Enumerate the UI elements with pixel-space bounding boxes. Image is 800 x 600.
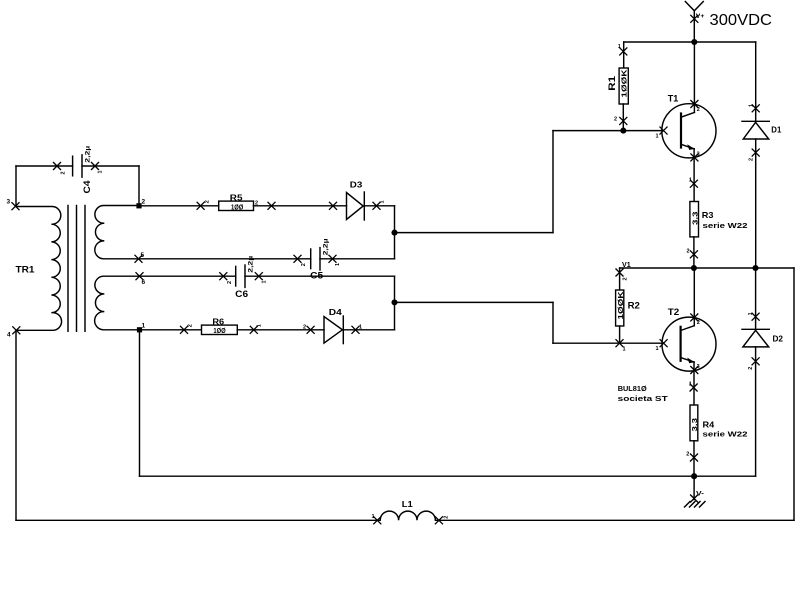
transistor T1 emitter stroke <box>681 144 694 149</box>
pin 1 X of D4 <box>352 326 360 334</box>
diode D3 triangle <box>347 193 364 220</box>
svg-text:2,2µ: 2,2µ <box>323 238 330 255</box>
capacitor C4 right plate <box>81 155 83 177</box>
pin 1 X of R5 <box>268 202 276 210</box>
pin 2 X of R6 <box>180 326 188 334</box>
svg-text:1ØØ: 1ØØ <box>231 202 244 211</box>
wire row1 R5 to D3 <box>254 205 347 207</box>
wire right outer riser x794 <box>793 268 795 520</box>
transformer TR1 pin 5 X <box>135 255 143 263</box>
svg-text:2: 2 <box>303 324 306 330</box>
svg-text:serie W22: serie W22 <box>703 430 748 439</box>
transistor T1 emitter arrow <box>687 144 694 150</box>
svg-text:3.3: 3.3 <box>692 418 699 432</box>
pin 2 X of T2 collector <box>690 313 698 321</box>
pin 1 X of R2 <box>616 339 624 347</box>
svg-text:1: 1 <box>689 178 692 184</box>
svg-text:2: 2 <box>623 277 629 280</box>
pin 1 X of R6 <box>250 326 258 334</box>
diode D3 cathode bar <box>363 192 365 220</box>
wire C4 loop right drop <box>138 166 140 206</box>
svg-text:1: 1 <box>656 134 659 140</box>
net V1 horizontal wire <box>620 267 794 269</box>
svg-text:BUL81Ø: BUL81Ø <box>618 384 647 393</box>
wire TR1 pin1 drop to V- line <box>139 330 141 476</box>
capacitor C6 right plate <box>244 265 246 287</box>
wire T1 collector from rail <box>693 42 695 112</box>
svg-text:1: 1 <box>372 514 375 520</box>
svg-text:2: 2 <box>687 249 690 255</box>
transformer TR1 pin 3 X <box>12 202 20 210</box>
wire D2 anode lead down to V- line <box>755 347 757 476</box>
pin 1 X of C6 <box>255 272 263 280</box>
wire T1 emitter down to R3 <box>693 149 695 202</box>
transformer TR1 primary winding <box>16 207 62 331</box>
svg-text:R1: R1 <box>607 76 617 91</box>
wire V- stem down to ground <box>693 476 695 499</box>
wire T2 collector from V1 <box>693 268 695 326</box>
svg-text:2: 2 <box>227 281 233 284</box>
wire D1 anode lead down <box>755 139 757 268</box>
svg-text:2: 2 <box>205 200 211 203</box>
pin 3 X of T1 emitter <box>690 153 698 161</box>
transistor T2 collector stroke <box>681 326 695 331</box>
resistor R1 body <box>619 68 628 104</box>
svg-text:4: 4 <box>7 332 11 339</box>
wire vertical C6/D4 join <box>394 276 396 330</box>
pin 2 X of D2 <box>752 357 760 365</box>
svg-text:1: 1 <box>335 263 341 266</box>
wire row4 D4 to corner <box>343 329 394 331</box>
svg-text:2: 2 <box>444 516 450 519</box>
pin 1 X of D3 <box>373 202 381 210</box>
svg-text:C4: C4 <box>82 181 92 194</box>
svg-text:T1: T1 <box>668 94 679 104</box>
junction V- node <box>691 473 697 479</box>
pin 2 X of D1 <box>752 149 760 157</box>
transformer TR1 pin 6 X <box>136 272 144 280</box>
wire R3 bottom lead <box>693 237 695 268</box>
pin 1 X of T1 base <box>660 127 668 135</box>
wire bottom line left of L1 <box>16 519 380 521</box>
pin 2 X of R2 <box>616 269 624 277</box>
pin 2 X of R4 <box>690 454 698 462</box>
pin X on V- stem <box>690 495 698 503</box>
wire rail corner down to R1 <box>623 42 625 68</box>
junction feedback tap A <box>391 230 397 236</box>
svg-text:2: 2 <box>697 320 700 326</box>
svg-text:1: 1 <box>618 44 621 50</box>
wire feedback tap B to riser <box>395 301 554 303</box>
ground symbol hatches <box>685 502 706 508</box>
pin 1 X of D1 <box>752 104 760 112</box>
wire V1 corner down to R2 <box>619 268 621 290</box>
diode D2 triangle <box>743 330 769 347</box>
wire T2 emitter down to R4 <box>693 362 695 405</box>
svg-text:C6: C6 <box>235 289 248 299</box>
pin 2 X of R1 <box>619 117 627 125</box>
transistor T1 circle <box>662 104 716 158</box>
diode D4 cathode bar <box>342 316 344 344</box>
inductor L1 coil <box>380 511 435 520</box>
svg-text:2,2µ: 2,2µ <box>248 256 255 273</box>
pin 1 X of L1 <box>373 516 381 524</box>
svg-text:2: 2 <box>142 199 146 206</box>
svg-text:300VDC: 300VDC <box>710 12 773 29</box>
pin 2 X of L1 <box>435 516 443 524</box>
wire T1 base line <box>553 130 662 132</box>
svg-text:TR1: TR1 <box>16 265 35 275</box>
svg-text:1ØØ: 1ØØ <box>213 326 226 335</box>
svg-text:2: 2 <box>614 117 617 123</box>
svg-text:1: 1 <box>256 324 262 327</box>
pin 2 X of R3 <box>690 250 698 258</box>
diode D1 triangle <box>743 122 768 139</box>
wire feedback riser to T2 base <box>552 302 554 343</box>
svg-text:1: 1 <box>98 170 104 173</box>
resistor R3 body <box>690 202 699 237</box>
transformer TR1 core line 2 <box>76 206 78 332</box>
pin 1 X of R4 <box>690 384 698 392</box>
svg-text:1: 1 <box>359 324 362 330</box>
svg-text:2: 2 <box>301 263 307 266</box>
wire V+ stem down to rail <box>693 16 695 42</box>
pin 2 X of C6 <box>219 272 227 280</box>
wire D2 top lead from V1 <box>755 268 757 329</box>
pin 2 X of C4 <box>53 162 61 170</box>
svg-text:1: 1 <box>748 312 754 315</box>
wire row3 C6 to corner <box>245 275 395 277</box>
svg-text:3.3: 3.3 <box>692 211 699 225</box>
wire vertical D3/C5 join <box>394 206 396 259</box>
wire T2 base line <box>553 342 662 344</box>
svg-text:3: 3 <box>697 152 700 158</box>
junction V1 at R3/T2 column <box>691 265 697 271</box>
svg-text:1: 1 <box>689 382 692 388</box>
pin 1 X of C5 <box>329 255 337 263</box>
svg-text:2: 2 <box>61 171 67 174</box>
transistor T1 collector stroke <box>681 112 694 117</box>
junction V1 at D1/D2 column <box>752 265 758 271</box>
capacitor C5 right plate <box>319 248 321 270</box>
transistor T2 base bar <box>679 326 681 362</box>
capacitor C6 left plate <box>235 266 237 286</box>
svg-text:D2: D2 <box>773 333 784 343</box>
svg-text:R3: R3 <box>702 210 714 220</box>
transistor T2 circle <box>662 317 716 371</box>
pin 1 X of C4 <box>91 162 99 170</box>
wire C4 loop top right <box>82 165 139 167</box>
wire C4 loop top left <box>16 165 73 167</box>
capacitor C4 left plate <box>72 156 74 176</box>
pin X on V+ stem <box>690 15 698 23</box>
svg-text:1: 1 <box>656 346 659 352</box>
capacitor C5 left plate <box>310 249 312 269</box>
svg-text:D4: D4 <box>329 307 342 317</box>
svg-text:D3: D3 <box>350 180 363 190</box>
svg-text:T2: T2 <box>668 307 680 317</box>
wire row4 R6 to D4 <box>237 329 324 331</box>
pin 1 X of R3 <box>690 180 698 188</box>
svg-text:2,2µ: 2,2µ <box>85 146 92 163</box>
pin 1 X of R1 <box>619 47 627 55</box>
svg-text:2: 2 <box>748 158 754 161</box>
supply V+ antenna symbol <box>685 2 703 16</box>
svg-text:L1: L1 <box>402 499 413 509</box>
pin 2 X of R5 <box>197 202 205 210</box>
svg-text:R5: R5 <box>230 194 243 203</box>
transistor T1 base bar <box>680 112 682 148</box>
svg-text:R6: R6 <box>212 317 224 326</box>
wire row1 from TR1 pin2 to R5 <box>139 205 219 207</box>
resistor R6 body <box>202 325 238 334</box>
resistor R4 body <box>690 405 698 441</box>
svg-text:1: 1 <box>380 200 386 203</box>
svg-text:2: 2 <box>255 201 258 207</box>
transistor T2 emitter stroke <box>681 358 695 363</box>
pin 1 X of D2 <box>752 313 760 321</box>
wire V- horizontal line <box>140 475 756 477</box>
transistor T2 emitter arrow <box>687 358 694 364</box>
svg-text:1ØØK: 1ØØK <box>620 68 629 97</box>
diode D4 triangle <box>324 317 342 344</box>
wire row2 C5 to corner <box>320 258 395 260</box>
wire R2 bottom lead <box>619 326 621 343</box>
wire row3 from TR1 pin6 to C6 <box>140 275 236 277</box>
svg-text:3: 3 <box>697 364 700 370</box>
transformer TR1 secondary winding top (pins 2-5) <box>95 206 139 259</box>
svg-text:V1: V1 <box>622 260 631 269</box>
resistor R5 body <box>219 201 254 210</box>
svg-text:2: 2 <box>697 107 700 113</box>
svg-text:1: 1 <box>748 104 754 107</box>
transformer TR1 core line 1 <box>67 206 69 332</box>
svg-text:societa ST: societa ST <box>618 394 669 403</box>
pin 3 X of T2 emitter <box>690 366 698 374</box>
junction feedback tap B <box>391 299 397 305</box>
wire feedback riser to T1 base <box>552 131 554 233</box>
pin 2 X of D3 <box>329 202 337 210</box>
wire bottom line right of L1 <box>435 519 794 521</box>
wire pin3 riser up to C4 loop <box>15 166 17 206</box>
junction on V+ rail <box>691 39 697 45</box>
wire feedback tap A to riser <box>395 232 554 234</box>
wire pin4 drop to bottom line <box>15 330 17 520</box>
pin 2 X of T1 collector <box>690 100 698 108</box>
svg-text:R2: R2 <box>628 301 640 311</box>
svg-text:1: 1 <box>261 280 267 283</box>
svg-text:2: 2 <box>188 324 194 327</box>
diode D2 cathode bar <box>742 328 769 330</box>
wire row1 D3 to corner <box>364 205 394 207</box>
junction R1 to T1 base line <box>620 128 626 134</box>
svg-text:2: 2 <box>748 367 754 370</box>
svg-text:3: 3 <box>7 199 11 206</box>
wire R1 bottom lead <box>622 104 624 131</box>
diode D1 cathode bar <box>742 120 769 122</box>
svg-text:6: 6 <box>142 279 146 286</box>
resistor R2 body <box>616 290 624 326</box>
wire V+ rail horizontal <box>624 41 756 43</box>
svg-text:2: 2 <box>686 452 689 458</box>
wire row4 from TR1 pin1 to R6 <box>140 329 202 331</box>
wire row2 from TR1 pin5 to C5 <box>139 258 311 260</box>
transformer TR1 secondary winding bottom (pins 6-1) <box>95 276 140 330</box>
wire D1 top lead from rail <box>755 42 757 121</box>
transformer TR1 pin 2 junction square <box>136 203 141 208</box>
svg-text:1: 1 <box>142 323 146 330</box>
svg-text:serie W22: serie W22 <box>703 221 748 230</box>
pin 2 X of D4 <box>307 326 315 334</box>
svg-text:1: 1 <box>623 347 626 353</box>
svg-text:R4: R4 <box>703 419 715 429</box>
svg-text:1ØØK: 1ØØK <box>616 290 625 319</box>
transformer TR1 core line 3 <box>84 206 86 332</box>
wire R4 bottom lead <box>693 441 695 476</box>
svg-text:5: 5 <box>141 252 145 259</box>
svg-text:V-: V- <box>696 491 704 498</box>
pin 1 X of T2 base <box>660 339 668 347</box>
transformer TR1 pin 4 X <box>12 326 20 334</box>
pin 2 X of C5 <box>294 255 302 263</box>
svg-text:D1: D1 <box>771 124 781 134</box>
transformer TR1 pin 1 junction square <box>137 327 142 332</box>
